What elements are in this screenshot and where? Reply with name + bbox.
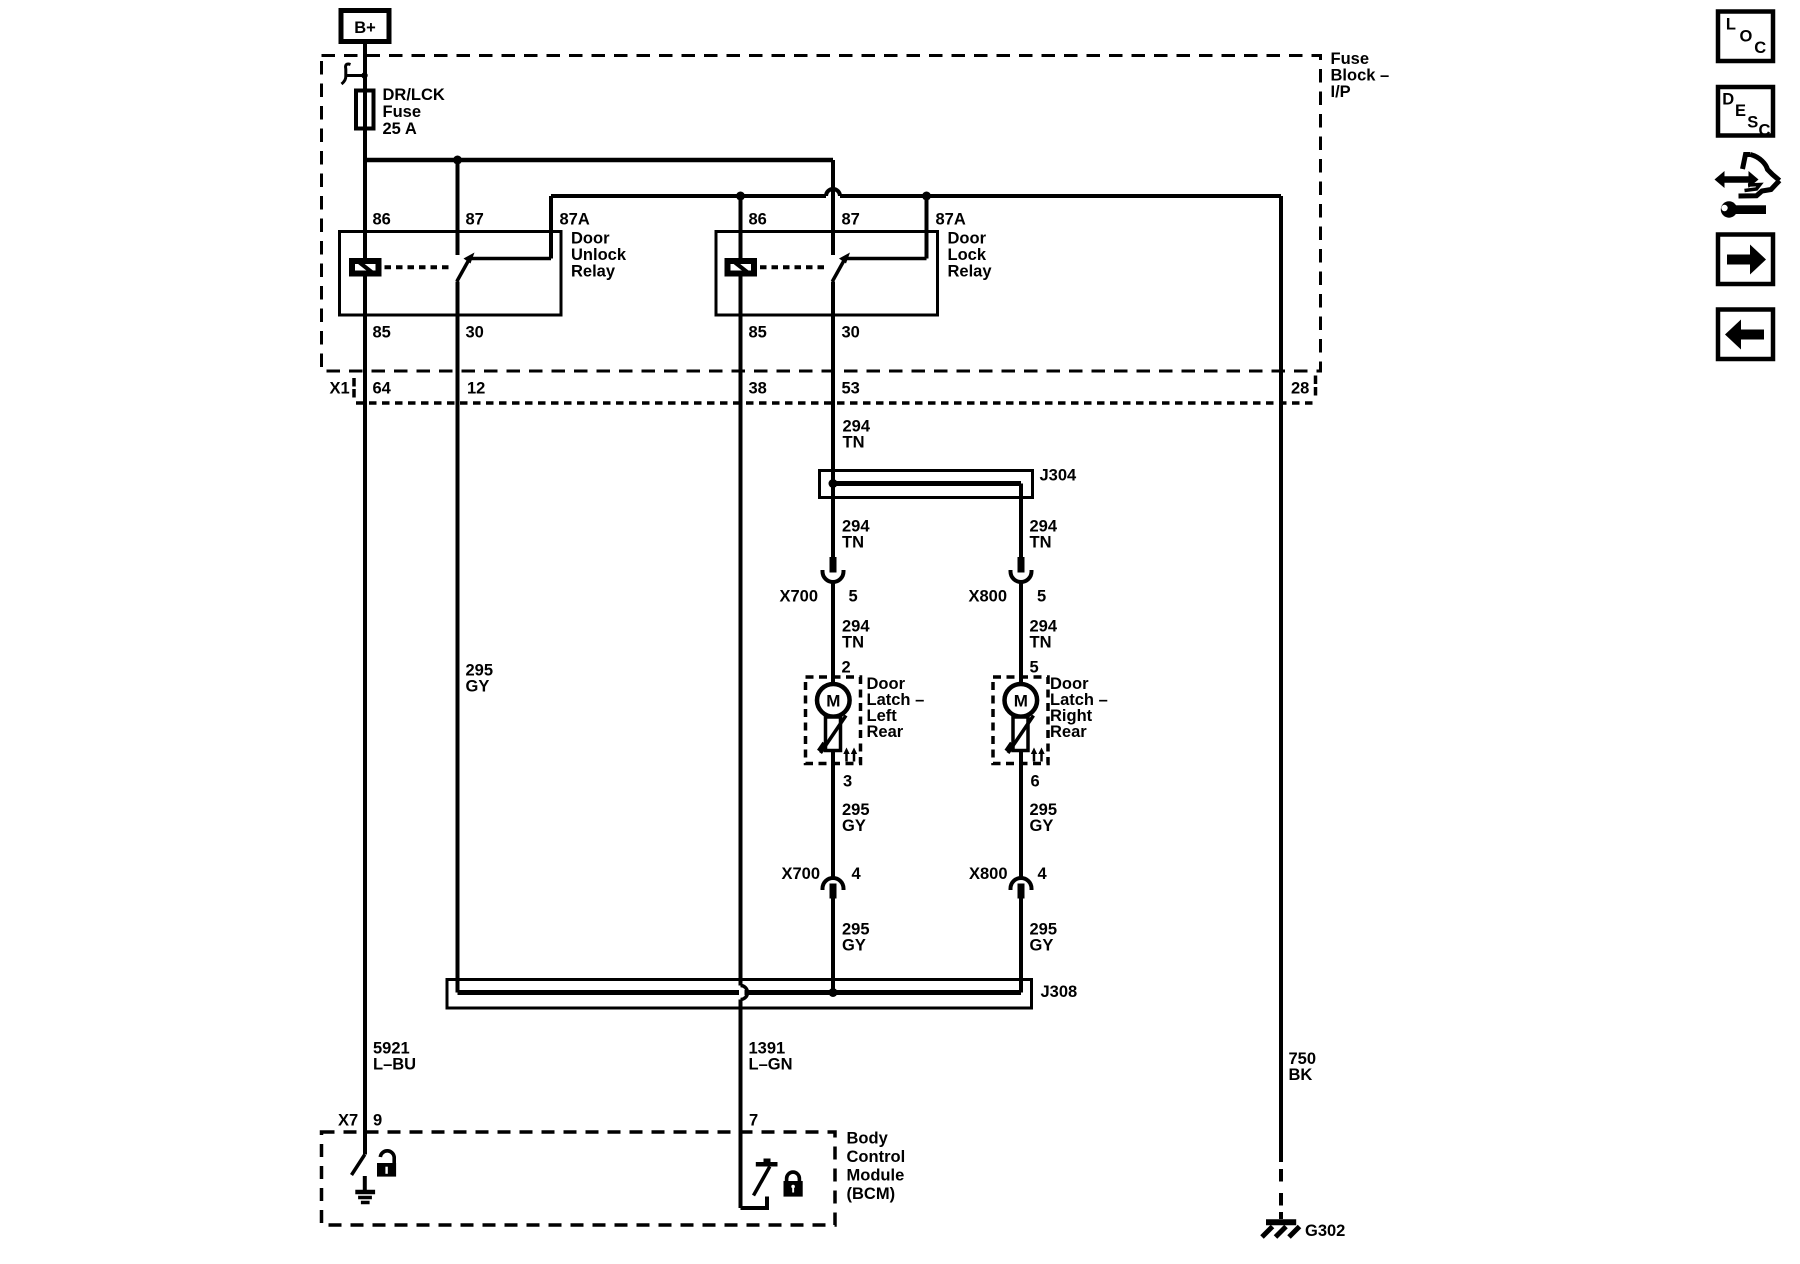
- svg-text:64: 64: [373, 380, 392, 398]
- svg-text:C: C: [1759, 122, 1771, 140]
- BCM internal ground: [355, 1176, 375, 1203]
- svg-text:X700: X700: [782, 865, 821, 883]
- label wire 294 TN above right latch: [1030, 618, 1058, 652]
- svg-text:Block –: Block –: [1331, 67, 1390, 85]
- svg-text:4: 4: [1038, 865, 1048, 883]
- relay U1 switch arm: [457, 253, 475, 282]
- wire lock coil 85 down to BCM pin 7 (with J308 hop): [739, 277, 743, 1209]
- fuse DR/LCK 25 A: [356, 91, 374, 129]
- battery terminal B+: [341, 11, 389, 42]
- label wire 294 TN left mid: [842, 518, 870, 552]
- splice pack J308: [447, 980, 1032, 1009]
- node junction bus2 / lock 87A: [922, 192, 931, 201]
- wire unlock coil 85 down to BCM pin 9: [363, 277, 367, 1155]
- svg-text:Module: Module: [847, 1167, 905, 1185]
- wire unlock relay 30 down to J308: [456, 282, 460, 993]
- label wire 294 TN above left latch: [842, 618, 870, 652]
- label DR/LCK Fuse 25 A: [383, 86, 445, 138]
- arrows right latch: [1031, 748, 1045, 762]
- svg-text:M: M: [826, 692, 840, 711]
- label wire 295 GY left branch: [466, 662, 494, 696]
- BCM lock switch arm: [754, 1159, 778, 1196]
- motor M right latch: [1005, 684, 1038, 717]
- sidebar next arrow button: [1718, 235, 1773, 285]
- wire bus1 down to door lock relay 87: [831, 160, 835, 255]
- X1 connector dotted line: [356, 401, 1315, 405]
- label Fuse Block - I/P: [1331, 50, 1390, 101]
- ground G302: [1262, 1222, 1300, 1237]
- wire J304 right branch down to X800: [1019, 484, 1023, 560]
- wire unlock relay 87: [456, 160, 460, 255]
- switch element right latch: [1007, 716, 1034, 754]
- sidebar DESC button: [1718, 87, 1773, 140]
- svg-text:GY: GY: [1030, 937, 1054, 955]
- wire X700-4 down to J308: [831, 899, 835, 993]
- svg-text:Relay: Relay: [571, 263, 616, 281]
- relay U1 coil: [352, 261, 379, 274]
- label Door Latch - Right Rear: [1050, 675, 1108, 741]
- svg-text:I/P: I/P: [1331, 83, 1351, 101]
- BCM lock switch contact: [741, 1197, 768, 1211]
- door latch right rear dashed box: [993, 677, 1048, 764]
- switch element left latch: [820, 716, 847, 754]
- svg-text:Body: Body: [847, 1130, 889, 1148]
- label wire 294 TN upper: [843, 418, 871, 452]
- relay U2 87A contact line: [846, 257, 927, 261]
- fuse block dashed box: [322, 56, 1321, 372]
- relay U1 87A contact line: [470, 257, 551, 261]
- svg-text:(BCM): (BCM): [847, 1185, 896, 1203]
- wire bus from fuse to relay 87 pins: [365, 158, 833, 163]
- relay U1 Door Unlock Relay box: [340, 232, 562, 316]
- svg-text:85: 85: [373, 324, 391, 342]
- label Body Control Module (BCM): [847, 1130, 906, 1204]
- svg-text:B+: B+: [354, 19, 376, 37]
- svg-text:87: 87: [466, 211, 484, 229]
- wire 750 BK dashed to ground: [1279, 1169, 1283, 1219]
- relay U2 coil: [728, 261, 755, 274]
- svg-text:4: 4: [852, 865, 862, 883]
- svg-text:X1: X1: [330, 380, 350, 398]
- label wire 295 GY above J308 right: [1030, 921, 1058, 955]
- svg-text:X800: X800: [969, 865, 1008, 883]
- connector X800 pin 5: [1011, 557, 1032, 582]
- svg-text:87A: 87A: [560, 211, 590, 229]
- svg-text:38: 38: [749, 380, 767, 398]
- svg-text:GY: GY: [842, 937, 866, 955]
- node junction bus1 / unlock 87: [453, 156, 462, 165]
- svg-text:5: 5: [1037, 588, 1046, 606]
- svg-text:D: D: [1722, 91, 1734, 109]
- label wire 295 GY above J308 left: [842, 921, 870, 955]
- svg-text:L: L: [1726, 16, 1736, 34]
- svg-text:L–BU: L–BU: [373, 1056, 416, 1074]
- svg-text:9: 9: [373, 1112, 382, 1130]
- sidebar LOC button: [1718, 12, 1773, 62]
- wire left latch to X700-4: [831, 751, 835, 879]
- svg-text:85: 85: [749, 324, 767, 342]
- motor M left latch: [817, 684, 850, 717]
- wire X700-5 to left latch motor: [831, 582, 835, 686]
- svg-text:TN: TN: [842, 634, 864, 652]
- svg-text:2: 2: [842, 659, 851, 677]
- label wire 295 GY below left latch: [842, 801, 870, 835]
- X1 connector separator left: [352, 378, 356, 398]
- svg-text:28: 28: [1291, 380, 1309, 398]
- svg-text:GY: GY: [1030, 817, 1054, 835]
- sidebar interactive icon: [1715, 155, 1780, 218]
- X1 connector separator right: [1314, 376, 1318, 396]
- svg-text:30: 30: [466, 324, 484, 342]
- connector X700 pin 5: [823, 557, 844, 582]
- svg-text:30: 30: [842, 324, 860, 342]
- svg-text:GY: GY: [466, 678, 490, 696]
- svg-text:Rear: Rear: [867, 723, 904, 741]
- svg-text:M: M: [1014, 692, 1028, 711]
- svg-text:GY: GY: [842, 817, 866, 835]
- label Door Unlock Relay: [571, 230, 627, 281]
- svg-text:7: 7: [749, 1112, 758, 1130]
- connector X800 pin 4: [1011, 878, 1032, 899]
- lock padlock icon: [784, 1172, 803, 1197]
- label wire 750 BK: [1289, 1050, 1317, 1084]
- sidebar back arrow button: [1718, 310, 1773, 360]
- svg-text:3: 3: [843, 773, 852, 791]
- svg-text:Control: Control: [847, 1148, 906, 1166]
- svg-text:TN: TN: [842, 534, 864, 552]
- unlock padlock icon: [377, 1151, 396, 1177]
- label wire 1391 L-GN: [749, 1040, 793, 1074]
- splice pack J304: [820, 471, 1033, 498]
- BCM unlock switch arm: [352, 1155, 365, 1176]
- svg-text:C: C: [1754, 39, 1766, 57]
- svg-text:Door: Door: [571, 230, 610, 248]
- svg-text:TN: TN: [1030, 534, 1052, 552]
- svg-text:Fuse: Fuse: [383, 103, 422, 121]
- connector X700 pin 4: [823, 878, 844, 899]
- wire 87A bus down to ground 750 BK: [1279, 196, 1283, 1162]
- svg-text:X700: X700: [780, 588, 819, 606]
- wire lock relay 86 from bus2 to coil: [739, 196, 743, 261]
- wire 87A bus: [551, 189, 1281, 259]
- svg-text:Fuse: Fuse: [1331, 50, 1370, 68]
- svg-text:TN: TN: [1030, 634, 1052, 652]
- svg-text:6: 6: [1031, 773, 1040, 791]
- wire X800-5 to right latch motor: [1019, 582, 1023, 686]
- door latch left rear dashed box: [806, 677, 861, 764]
- svg-text:TN: TN: [843, 434, 865, 452]
- svg-text:Relay: Relay: [948, 263, 993, 281]
- relay U2 Door Lock Relay box: [716, 232, 938, 316]
- svg-text:J308: J308: [1041, 983, 1078, 1001]
- svg-text:O: O: [1740, 28, 1753, 46]
- svg-text:E: E: [1735, 102, 1746, 120]
- svg-text:53: 53: [842, 380, 860, 398]
- svg-text:J304: J304: [1040, 467, 1078, 485]
- svg-text:5: 5: [1030, 659, 1039, 677]
- fuse block tap symbol: [342, 64, 368, 84]
- wire hop of 1391 over J308: [741, 986, 748, 1000]
- node junction bus2 / lock 86: [736, 192, 745, 201]
- svg-text:X7: X7: [338, 1112, 358, 1130]
- relay U2 switch arm: [832, 253, 850, 282]
- BCM dashed box: [322, 1132, 836, 1225]
- svg-text:86: 86: [373, 211, 391, 229]
- wire lock relay 30 down to J304: [831, 282, 835, 560]
- svg-text:5: 5: [849, 588, 858, 606]
- svg-text:Door: Door: [948, 230, 987, 248]
- svg-text:DR/LCK: DR/LCK: [383, 86, 445, 104]
- svg-text:X800: X800: [969, 588, 1008, 606]
- label Door Latch - Left Rear: [867, 675, 925, 741]
- svg-text:S: S: [1747, 114, 1758, 132]
- label wire 295 GY below right latch: [1030, 801, 1058, 835]
- svg-text:BK: BK: [1289, 1066, 1313, 1084]
- svg-text:87: 87: [842, 211, 860, 229]
- svg-text:Unlock: Unlock: [571, 246, 627, 264]
- svg-text:86: 86: [749, 211, 767, 229]
- svg-text:25 A: 25 A: [383, 120, 417, 138]
- wire X800-4 down to J308: [1019, 899, 1023, 993]
- svg-text:L–GN: L–GN: [749, 1056, 793, 1074]
- relay U1 coil-switch dashed link: [385, 265, 451, 269]
- label wire 5921 L-BU: [373, 1040, 416, 1074]
- wire B+ down through fuse to relay coil 86: [363, 44, 367, 258]
- svg-text:G302: G302: [1305, 1222, 1345, 1240]
- label wire 294 TN right mid: [1030, 518, 1058, 552]
- relay U2 coil-switch dashed link: [760, 265, 826, 269]
- wire right latch to X800-4: [1019, 751, 1023, 879]
- svg-text:12: 12: [467, 380, 485, 398]
- label Door Lock Relay: [948, 230, 993, 281]
- svg-text:Rear: Rear: [1050, 723, 1087, 741]
- svg-text:87A: 87A: [936, 211, 966, 229]
- svg-text:Lock: Lock: [948, 246, 987, 264]
- arrows left latch: [843, 748, 857, 762]
